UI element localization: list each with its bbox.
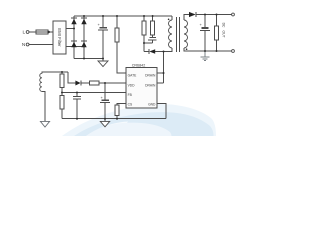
svg-text:N: N <box>22 42 26 48</box>
B+ top rail <box>74 15 172 17</box>
snubber capacitor C2 <box>149 37 155 39</box>
wire aux diode to resistor <box>81 82 90 84</box>
bridge diode D1 triangle <box>71 19 76 25</box>
GND wire <box>157 104 166 119</box>
wire N to EMI <box>29 44 53 46</box>
svg-text:EMI Filter: EMI Filter <box>57 28 62 47</box>
wire clamp diode to drain node <box>155 51 163 53</box>
transformer primary lead top <box>171 16 173 20</box>
bulk capacitor C1 leads and plates <box>102 16 104 27</box>
wire clamp jog <box>144 42 153 44</box>
IC U1 CR6842 box <box>126 68 157 109</box>
aux winding lead bottom <box>42 91 45 121</box>
wire aux to diode <box>68 72 75 83</box>
bridge bottom rail <box>74 58 103 60</box>
bridge left leg wire <box>73 16 75 59</box>
fuse end dot <box>48 31 50 33</box>
EMI filter block <box>53 21 66 54</box>
output terminal minus <box>232 50 235 53</box>
junction node dots <box>61 14 218 120</box>
bridge right leg wire <box>83 16 85 59</box>
primary ground 1 stub <box>102 59 104 62</box>
startup resistor R1 <box>116 16 118 28</box>
divider resistor R7 <box>60 96 64 110</box>
bridge diode D3 triangle <box>71 42 76 48</box>
divider resistor R6 <box>61 72 63 74</box>
transformer core <box>176 17 178 52</box>
svg-text:GND: GND <box>148 103 156 107</box>
snubber resistor R3 <box>152 16 154 21</box>
DRAIN wire 1 <box>157 72 164 74</box>
transformer primary lead bottom <box>164 48 173 52</box>
wire L to fuse <box>29 31 36 33</box>
primary ground 2 triangle <box>100 121 109 126</box>
transformer T1 secondary winding <box>184 20 188 48</box>
svg-text:CS: CS <box>128 103 133 107</box>
svg-text:OUT: OUT <box>222 31 226 38</box>
wire R5 to VDD <box>99 82 126 84</box>
watermark swoosh main band <box>74 112 214 136</box>
phase dot primary <box>168 19 170 21</box>
bridge diode D4 triangle <box>81 42 86 48</box>
transformer T1 primary winding <box>169 20 172 48</box>
bridge diode bars <box>71 17 77 19</box>
FB wire <box>62 92 126 94</box>
wire R1 to GATE <box>117 42 126 73</box>
primary ground 2 stub <box>104 119 106 122</box>
wire clamp diode lead <box>144 51 149 53</box>
aux winding coil <box>40 73 42 91</box>
primary ground 1 triangle <box>98 61 108 67</box>
output top rail <box>196 14 232 16</box>
svg-text:DRAIN: DRAIN <box>145 83 156 87</box>
aux resistor R5 <box>90 81 100 85</box>
primary ground rail <box>62 118 166 120</box>
snubber resistor R2 <box>143 16 145 21</box>
wire EMI to bridge right leg <box>66 46 84 48</box>
fuse F1 <box>36 30 48 34</box>
aux diode bar <box>80 81 82 86</box>
output capacitor C3 <box>204 15 206 28</box>
watermark swoosh inner white pocket <box>86 122 128 137</box>
input terminal L circle <box>26 31 29 34</box>
watermark swoosh faint outer band <box>62 104 216 136</box>
CS resistor R8 <box>115 105 119 116</box>
CS wire <box>117 104 126 106</box>
svg-text:DC: DC <box>222 23 226 28</box>
wire EMI to bridge left leg <box>66 28 74 30</box>
VDD capacitor C5 <box>104 83 106 100</box>
drain vertical wire <box>163 52 165 84</box>
transformer secondary lead top <box>184 15 189 21</box>
clamp diode bar <box>148 49 150 54</box>
svg-text:DRAIN: DRAIN <box>145 73 156 77</box>
FB capacitor C4 <box>76 93 78 97</box>
phase dot secondary <box>186 48 188 50</box>
svg-text:GATE: GATE <box>128 73 138 77</box>
output terminal plus <box>232 13 235 16</box>
svg-text:CR6842: CR6842 <box>132 63 146 67</box>
output diode bar <box>195 12 197 17</box>
DRAIN wire 2 <box>157 82 164 84</box>
transformer secondary lead bottom <box>184 48 232 51</box>
aux diode D7 triangle <box>75 81 80 86</box>
input terminal N circle <box>26 43 29 46</box>
bridge diode D2 triangle <box>81 19 86 25</box>
output diode D6 triangle <box>189 12 196 17</box>
clamp diode D5 triangle <box>149 49 155 54</box>
aux winding lead top <box>42 72 68 73</box>
secondary ground lines <box>200 51 209 61</box>
svg-text:L: L <box>23 30 26 36</box>
svg-text:VDD: VDD <box>128 83 136 87</box>
aux ground triangle <box>40 121 49 127</box>
load resistor R4 <box>216 15 218 27</box>
